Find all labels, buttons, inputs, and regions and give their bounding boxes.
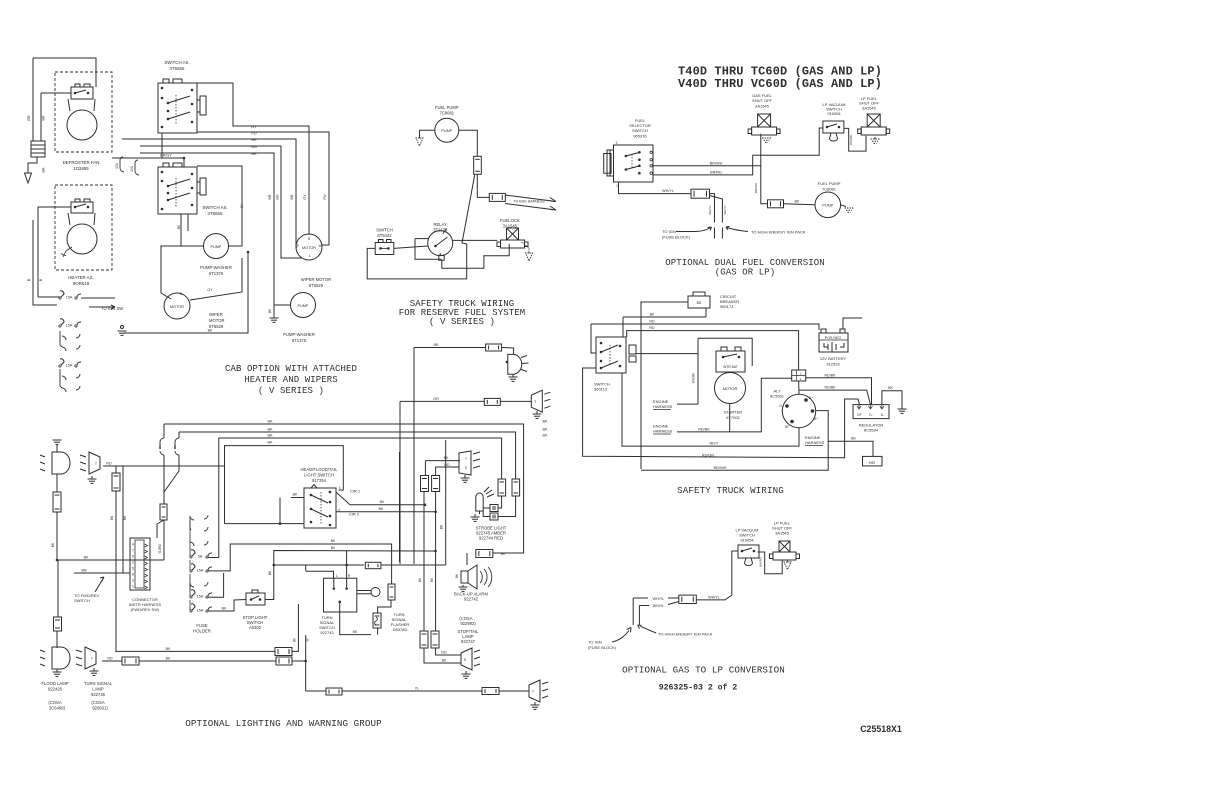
svg-text:8: 8 (132, 573, 134, 577)
svg-text:910054: 910054 (740, 538, 754, 543)
fuelock bottom chain (442, 244, 509, 268)
svg-text:T: T (465, 457, 467, 461)
HEI box (863, 456, 883, 466)
wire RD/Y (622, 373, 799, 446)
connector vertical reserve (474, 156, 482, 174)
two pin connector (792, 370, 806, 381)
svg-text:YL: YL (415, 687, 419, 691)
svg-text:SHUT OFF: SHUT OFF (752, 98, 772, 103)
svg-text:6T1375: 6T1375 (209, 271, 224, 276)
svg-text:922747: 922747 (461, 639, 476, 644)
to eng harness arrow banner (505, 195, 556, 210)
svg-text:BR/RD: BR/RD (710, 170, 722, 174)
wire GY switch1 to wiper motor (197, 83, 309, 234)
turn signal switch (324, 578, 357, 612)
reserve inner loop (394, 246, 428, 248)
svg-text:BK: BK (542, 420, 548, 424)
turn signal lamp 1 (89, 452, 100, 474)
fuel pump reserve (435, 118, 459, 142)
fuse 15A f6 (191, 604, 195, 610)
svg-text:BK: BK (353, 630, 358, 634)
svg-text:BK: BK (795, 199, 800, 203)
svg-text:3T6655: 3T6655 (208, 211, 223, 216)
svg-text:WH/BK: WH/BK (692, 372, 696, 383)
svg-text:BK: BK (222, 607, 227, 611)
defroster switch (71, 87, 93, 99)
svg-text:15A: 15A (173, 444, 177, 449)
svg-text:922743: 922743 (320, 630, 334, 635)
svg-text:BK: BK (379, 507, 384, 511)
svg-text:BK: BK (650, 313, 655, 317)
wire BR 2 (140, 153, 291, 305)
svg-text:GY: GY (303, 194, 307, 200)
svg-text:WIPER MOTOR: WIPER MOTOR (301, 277, 331, 282)
strobe feed boxes (498, 479, 506, 496)
wire BK ground right (882, 391, 902, 409)
svg-text:1: 1 (132, 585, 134, 589)
defroster fan motor (67, 110, 97, 140)
svg-text:FLOOD LAMP: FLOOD LAMP (42, 681, 69, 686)
wire GR aux lamp2 (400, 400, 484, 402)
svg-text:2: 2 (132, 561, 134, 565)
bus wire BK 2 (179, 432, 516, 479)
wire relay to fuelock (453, 239, 498, 241)
svg-text:A0302: A0302 (249, 625, 262, 630)
svg-text:RD/BK: RD/BK (825, 373, 837, 377)
svg-text:WH/RD: WH/RD (758, 556, 762, 567)
svg-text:RD: RD (649, 326, 655, 330)
to ign arrow (612, 628, 631, 643)
floating riser wire (399, 452, 401, 562)
svg-text:922746: 922746 (91, 692, 106, 697)
svg-text:CAB OPTION WITH ATTACHED: CAB OPTION WITH ATTACHED (225, 364, 357, 374)
lp vacuum switch bottom (738, 545, 759, 558)
svg-text:TO IGN: TO IGN (662, 229, 676, 234)
wire BR/WH (653, 165, 761, 167)
relay bottom terminal (439, 255, 444, 260)
fuse 15A 2 (60, 319, 64, 325)
svg-text:RELAY: RELAY (433, 222, 447, 227)
12V battery (819, 333, 848, 352)
flood lamp 2 (52, 647, 70, 669)
fuse holder left rail (189, 520, 191, 610)
svg-text:BK: BK (166, 647, 171, 651)
heater motor (67, 224, 97, 254)
svg-text:BK: BK (542, 428, 548, 432)
battery stub wire (843, 318, 862, 329)
alternator distributor (782, 394, 815, 427)
fuel selector switch (614, 145, 654, 182)
aux lamp 1 (508, 354, 522, 374)
svg-text:1D2855: 1D2855 (73, 166, 89, 171)
svg-text:GR: GR (433, 397, 439, 401)
lamp BK reserve aux (414, 347, 486, 349)
fuel pump dual connector (768, 200, 784, 208)
svg-text:6T1375: 6T1375 (292, 338, 307, 343)
starter solenoid box (716, 351, 745, 372)
svg-text:2: 2 (616, 141, 618, 145)
svg-text:9OR618: 9OR618 (73, 281, 90, 286)
svg-text:6T6529: 6T6529 (309, 283, 324, 288)
svg-text:W: W (306, 638, 310, 641)
svg-text:BK: BK (84, 556, 89, 560)
svg-text:950173: 950173 (720, 304, 734, 309)
wire breaker drop RD/WH (641, 302, 688, 469)
svg-text:PUMP-WASHER: PUMP-WASHER (283, 332, 315, 337)
svg-text:TO HIGH ENGERY IGN PACK: TO HIGH ENGERY IGN PACK (658, 632, 713, 637)
switch 6T9442 (375, 243, 394, 255)
wire BR/RD (653, 128, 823, 175)
starter motor (715, 373, 746, 404)
wire BK to ground arrow (28, 157, 37, 173)
svg-text:RD: RD (107, 657, 113, 661)
svg-text:(GAS OR LP): (GAS OR LP) (715, 268, 776, 278)
svg-text:BK: BK (267, 441, 273, 445)
svg-text:PUMP-WASHER: PUMP-WASHER (200, 265, 232, 270)
svg-text:POS NEG: POS NEG (825, 336, 842, 340)
svg-text:8C5531: 8C5531 (770, 394, 785, 399)
wire alarm feed (466, 553, 468, 565)
svg-text:L: L (336, 574, 338, 578)
wiper motor 2 (296, 234, 322, 260)
svg-text:RD: RD (106, 462, 112, 466)
svg-text:RD/BK: RD/BK (825, 386, 837, 390)
svg-text:C25518X1: C25518X1 (860, 724, 902, 734)
svg-text:WH/RD: WH/RD (849, 134, 853, 145)
switch assembly 1 (158, 83, 197, 133)
svg-text:BK: BK (51, 542, 55, 547)
svg-text:D+: D+ (809, 396, 813, 400)
wire RD/BK regulator 1 (806, 378, 872, 405)
svg-text:BR: BR (251, 152, 257, 156)
svg-text:SWITCH: SWITCH (74, 598, 90, 603)
svg-text:B: B (39, 278, 43, 281)
svg-text:(COSA: (COSA (91, 700, 104, 705)
gaslp wiring right (758, 552, 783, 574)
lp fuel shutoff bottom (779, 541, 790, 552)
svg-text:MOTOR: MOTOR (302, 246, 316, 250)
svg-text:WIPER: WIPER (209, 312, 223, 317)
gas shutoff ground (762, 137, 771, 139)
svg-text:(FUSE BLOCK): (FUSE BLOCK) (588, 645, 617, 650)
ground and wire BK motor1 (121, 326, 124, 329)
gas shutoff drop wire (761, 134, 768, 204)
svg-text:3: 3 (132, 579, 134, 583)
svg-text:BN: BN (110, 515, 114, 520)
wh/yl stubs (633, 597, 648, 599)
turn signal wiring (340, 612, 371, 635)
svg-text:PUMP: PUMP (298, 304, 309, 308)
svg-text:905376: 905376 (633, 134, 647, 139)
fuse 15A ignition (60, 291, 64, 297)
rear turn lamp (529, 680, 540, 702)
svg-text:D8378D: D8378D (393, 627, 408, 632)
pump washer 2 (291, 293, 316, 318)
fuse holder symbols (190, 515, 208, 528)
relay 3T2173 (428, 231, 453, 256)
wire RD/BK regulator 2 (799, 390, 871, 405)
fuse 15A 3 (60, 359, 64, 365)
svg-text:BN: BN (123, 515, 127, 520)
svg-text:15A: 15A (115, 162, 119, 169)
svg-text:922744 RED: 922744 RED (479, 536, 503, 541)
lp shutoff ground top (874, 137, 876, 139)
svg-text:15A: 15A (66, 296, 73, 300)
svg-text:YL/RD: YL/RD (158, 543, 162, 554)
wire BN fwd/rev (74, 572, 130, 574)
svg-text:6: 6 (132, 555, 134, 559)
svg-text:BN: BN (251, 145, 257, 149)
svg-text:RD/GN: RD/GN (702, 453, 714, 457)
strobe marker lamp (459, 451, 471, 475)
wire flood lamp 2 feed (115, 650, 275, 652)
svg-text:6T9442: 6T9442 (377, 233, 392, 238)
fuse 15A f4 (191, 564, 195, 570)
svg-text:917254: 917254 (312, 478, 327, 483)
fuse 3A (191, 550, 195, 556)
svg-text:(FWD/REV SW): (FWD/REV SW) (131, 607, 160, 612)
svg-text:TURN SIGNAL: TURN SIGNAL (84, 681, 113, 686)
fuelock valve (507, 228, 519, 240)
svg-text:15A: 15A (197, 609, 204, 613)
svg-text:3: 3 (339, 486, 341, 490)
svg-text:TO ENG HARNESS: TO ENG HARNESS (513, 200, 545, 204)
wire RD/WH (641, 411, 828, 471)
circuit breaker 950173 (688, 296, 710, 308)
connector block (31, 141, 45, 157)
flood lamp 1 (53, 439, 62, 441)
svg-text:15A: 15A (130, 165, 134, 172)
bulkhead dashed wires (714, 228, 716, 239)
reserve outer loop (367, 244, 467, 279)
svg-text:12V BATTERY: 12V BATTERY (820, 356, 847, 361)
riser GR aux (399, 401, 401, 564)
fuse 15A hanging 1 (120, 157, 124, 172)
svg-text:B: B (27, 278, 31, 281)
svg-text:WH/YL: WH/YL (653, 597, 665, 601)
circuit breaker 1 (163, 424, 165, 438)
wire cir1 (336, 492, 425, 505)
riser BK aux (413, 348, 415, 565)
svg-text:WH/YL: WH/YL (653, 604, 665, 608)
gaslp wiring left (696, 551, 738, 600)
svg-text:D-: D- (779, 404, 782, 408)
svg-text:912523: 912523 (826, 362, 840, 367)
stop light switch (246, 593, 265, 605)
svg-text:B: B (308, 237, 310, 241)
svg-text:920931): 920931) (92, 706, 108, 711)
svg-text:MOTOR: MOTOR (209, 318, 225, 323)
strobe light bulb (476, 493, 483, 511)
switch 2 side tab (197, 182, 200, 193)
svg-text:HOLDER: HOLDER (193, 629, 210, 634)
bus wire BK 1 (164, 424, 524, 553)
svg-text:BK: BK (440, 524, 444, 529)
svg-text:BK: BK (267, 434, 273, 438)
fuel pump hollow ground arrow (420, 130, 435, 138)
wire pump to connector (459, 130, 478, 156)
svg-text:3A1545: 3A1545 (862, 105, 877, 110)
svg-text:BR: BR (290, 194, 294, 199)
svg-text:SWITCH AS.: SWITCH AS. (164, 60, 189, 65)
lp shutoff wiring (844, 128, 866, 151)
head flood tail light switch (304, 488, 336, 528)
svg-text:LIGHT SWITCH: LIGHT SWITCH (304, 473, 334, 478)
lp vacuum switch top (823, 121, 844, 133)
wiper motor 1 (164, 293, 190, 319)
wires light switch left (291, 497, 304, 499)
svg-text:BK: BK (433, 343, 439, 347)
wire BN (140, 146, 302, 258)
svg-text:922742: 922742 (464, 597, 479, 602)
svg-text:BK: BK (542, 434, 548, 438)
svg-text:WTR BAT: WTR BAT (723, 365, 738, 369)
wire stop tail junction vertical (306, 635, 326, 691)
svg-text:RD: RD (444, 463, 450, 467)
svg-text:HARNESS: HARNESS (653, 404, 673, 409)
strobe wiring (498, 496, 502, 508)
svg-text:HEI: HEI (869, 460, 876, 465)
wire PU (197, 132, 329, 245)
svg-text:DF: DF (785, 425, 789, 429)
svg-text:15A: 15A (66, 364, 73, 368)
svg-text:OPTIONAL DUAL FUEL CONVERSION: OPTIONAL DUAL FUEL CONVERSION (665, 258, 825, 268)
back-up alarm (461, 571, 468, 583)
wire RD 2 (627, 331, 799, 370)
fuelock dashed ground arrow (522, 242, 530, 253)
gas fuel shut off valve (758, 114, 771, 127)
wire GY motor1 (190, 258, 242, 300)
connector instr harness (130, 538, 150, 590)
wire RD turn lamp 1 (103, 465, 225, 467)
wire heater to fuse bank (38, 207, 71, 297)
svg-text:BK: BK (851, 437, 856, 441)
svg-text:RD/Y: RD/Y (709, 442, 719, 446)
svg-text:SWITCH: SWITCH (632, 128, 648, 133)
svg-text:BD: BD (697, 301, 702, 305)
lp fuel shut off valve top (867, 114, 880, 127)
riser from bus 3 to turn signal (445, 440, 447, 565)
svg-text:BK: BK (267, 428, 273, 432)
pump washer 1 (204, 234, 229, 259)
wire to eng harness (477, 174, 489, 197)
svg-text:SAFETY TRUCK WIRING: SAFETY TRUCK WIRING (677, 485, 784, 496)
svg-text:360113: 360113 (594, 387, 608, 392)
svg-text:FUEL PUMP: FUEL PUMP (435, 105, 459, 110)
svg-text:WH/YL: WH/YL (662, 189, 674, 193)
svg-text:1: 1 (616, 184, 618, 188)
box above flasher (388, 584, 395, 600)
svg-text:BK: BK (42, 115, 46, 121)
svg-text:BK: BK (501, 552, 506, 556)
svg-text:BK: BK (166, 657, 171, 661)
svg-text:HEATER AS.: HEATER AS. (68, 275, 94, 280)
svg-text:P: P (297, 244, 299, 248)
fuel pump dual (815, 192, 841, 218)
svg-text:PU: PU (323, 194, 327, 199)
breaker1 lower box (160, 504, 167, 520)
svg-text:( V SERIES ): ( V SERIES ) (258, 386, 324, 396)
svg-text:HARNESS: HARNESS (805, 440, 825, 445)
wire flood lamp 1 down (56, 474, 58, 492)
svg-text:926325-03 2 of 2: 926325-03 2 of 2 (659, 683, 738, 693)
svg-text:BK: BK (268, 570, 272, 575)
turn signal lamp 2 (85, 647, 96, 669)
svg-text:BN: BN (276, 194, 280, 199)
svg-text:DF: DF (857, 413, 861, 417)
svg-text:PUMP: PUMP (441, 129, 452, 133)
svg-text:15A: 15A (158, 444, 162, 449)
wire top loop (33, 58, 96, 87)
fuse coils 2 (62, 374, 80, 380)
dashed enclosure heater (55, 185, 112, 270)
svg-text:MOTOR: MOTOR (170, 305, 184, 309)
svg-text:(COSA: (COSA (48, 700, 61, 705)
svg-text:BK: BK (331, 539, 336, 543)
svg-text:BK: BK (267, 420, 273, 424)
wire pump to motor loop (161, 246, 204, 299)
svg-text:HEAD/FLOOD/TAIL: HEAD/FLOOD/TAIL (301, 467, 339, 472)
svg-text:L: L (309, 254, 311, 258)
fuel pump dual ground (841, 205, 846, 207)
wire BR/GY to switch2 (112, 157, 184, 159)
svg-text:HEATER AND WIPERS: HEATER AND WIPERS (244, 375, 338, 385)
wire YL/RD (157, 520, 164, 538)
svg-text:3A1545: 3A1545 (775, 531, 790, 536)
starter feed wire (635, 353, 698, 355)
svg-text:CIR 1: CIR 1 (350, 489, 361, 494)
svg-text:BK: BK (444, 456, 449, 460)
connector drop boxes (115, 466, 117, 473)
svg-text:FUSE: FUSE (196, 623, 207, 628)
svg-text:PUMP: PUMP (211, 245, 222, 249)
svg-text:6T7002: 6T7002 (726, 415, 740, 420)
svg-text:STARTER: STARTER (724, 410, 742, 415)
L pin feed wire (306, 571, 334, 578)
svg-text:BR/WH: BR/WH (710, 161, 723, 165)
fuse 15A hanging 2 (135, 160, 139, 175)
ground pump2 (270, 317, 279, 319)
svg-text:7C8081: 7C8081 (439, 111, 454, 116)
wire switch2 to pump washer (181, 214, 204, 246)
svg-text:TO IGN: TO IGN (588, 640, 602, 645)
svg-text:BK: BK (331, 546, 336, 550)
switch assembly 2 (158, 167, 197, 214)
svg-text:SWITCH: SWITCH (376, 228, 393, 233)
wire BK to connector (57, 559, 164, 561)
svg-text:BR/WH: BR/WH (754, 183, 758, 193)
svg-text:5: 5 (132, 567, 134, 571)
svg-text:TO HIGH ENERGY IGN PACK: TO HIGH ENERGY IGN PACK (751, 230, 806, 235)
svg-text:BK: BK (208, 329, 213, 333)
wire to ign sw (81, 297, 115, 299)
wire cir2 (336, 511, 436, 513)
svg-text:RD: RD (649, 320, 655, 324)
turn signal flasher (373, 613, 381, 628)
svg-text:4: 4 (132, 543, 134, 547)
svg-text:(FUSE BLOCK): (FUSE BLOCK) (662, 235, 691, 240)
wire BR (122, 139, 297, 247)
switch 1 side tab (197, 100, 200, 112)
svg-text:FUELOCK: FUELOCK (500, 218, 520, 223)
svg-text:15A: 15A (66, 324, 73, 328)
svg-text:WH/YL: WH/YL (708, 205, 712, 215)
svg-text:B+: B+ (814, 417, 818, 421)
svg-text:MOTOR: MOTOR (723, 386, 738, 391)
svg-text:GY: GY (207, 288, 213, 292)
ground arrow (25, 173, 32, 183)
svg-text:8C5534: 8C5534 (864, 428, 879, 433)
